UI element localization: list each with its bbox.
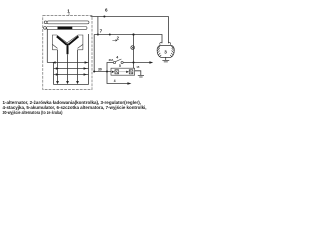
diode arrow down phase2 bbox=[66, 81, 69, 84]
wire 7 (indicator wire) bbox=[94, 35, 162, 44]
svg-text:5: 5 bbox=[119, 64, 121, 68]
label 4b on bottom branch bbox=[114, 79, 116, 83]
can body bbox=[157, 46, 174, 58]
svg-text:7: 7 bbox=[100, 29, 103, 34]
diode rail 2 bbox=[54, 68, 89, 70]
svg-text:1: 1 bbox=[67, 9, 70, 14]
diode rail 3 bbox=[54, 74, 89, 76]
winding bottom step right bbox=[78, 49, 83, 51]
phase bar left (thick) bbox=[57, 36, 67, 44]
diode rail 1 bbox=[47, 62, 88, 64]
stator winding envelope bbox=[52, 35, 83, 50]
phase bar right (thick) bbox=[69, 36, 79, 44]
label 4 bbox=[116, 56, 118, 60]
regulator ground bars bbox=[162, 60, 169, 62]
svg-text:4: 4 bbox=[116, 56, 118, 60]
regulator ground stub bbox=[165, 57, 167, 60]
svg-text:15: 15 bbox=[136, 65, 139, 69]
switch contact right bbox=[121, 61, 123, 63]
rail1 arrow left (pointing left) bbox=[52, 61, 55, 64]
regulator 3 (round can) bbox=[157, 42, 174, 57]
exciter wire to lower brush bbox=[46, 29, 47, 63]
label 30 bbox=[98, 68, 102, 72]
B+ vertical wire bbox=[93, 35, 95, 72]
tick dot 6 bbox=[103, 15, 105, 17]
label 6 bbox=[105, 8, 108, 13]
label 5 above box bbox=[119, 64, 121, 68]
tick dot 7 bbox=[109, 34, 111, 36]
slip ring bar lower bbox=[46, 27, 87, 30]
battery ground bars bbox=[138, 75, 144, 77]
svg-text:30: 30 bbox=[98, 68, 102, 72]
bottom branch wire bbox=[107, 72, 128, 84]
bottom rail bbox=[54, 84, 89, 86]
junction switch/lamp bbox=[132, 61, 134, 63]
wire6-wire7 link vertical bbox=[97, 17, 99, 35]
winding bottom step left bbox=[52, 49, 57, 51]
junction B+ / wire30 bbox=[93, 70, 95, 72]
label 7 bbox=[100, 29, 103, 34]
switch blade bbox=[116, 59, 122, 62]
svg-text:3: 3 bbox=[164, 50, 167, 55]
svg-text:6: 6 bbox=[105, 8, 108, 13]
diode arrow down phase1 bbox=[56, 81, 59, 84]
label 30A bbox=[109, 58, 114, 62]
leader arrow for 2 bbox=[112, 40, 117, 42]
rail2 arrow mid bbox=[56, 67, 59, 70]
junction switch elbow on wire30 bbox=[106, 70, 108, 72]
svg-text:2: 2 bbox=[117, 35, 120, 40]
terminal circle lower brush bbox=[44, 27, 47, 30]
bottom branch arrow end bbox=[127, 82, 131, 84]
alternator box 1 (dash-dot enclosure) bbox=[43, 16, 92, 90]
right bus bbox=[88, 34, 90, 85]
inter-cell wire bbox=[119, 71, 127, 73]
battery box 5 bbox=[111, 68, 135, 75]
rail3 arrow mid bbox=[56, 73, 59, 76]
rail2 arrow end bbox=[84, 67, 87, 70]
winding inner diagonal right bbox=[78, 44, 83, 48]
ignition switch 4 wire bbox=[107, 63, 150, 72]
svg-text:4: 4 bbox=[114, 79, 116, 83]
wire 6 (top run to regulator) bbox=[91, 17, 169, 44]
brush black segment bbox=[58, 27, 73, 30]
label 2 bbox=[117, 35, 120, 40]
phase bar middle (thick) bbox=[67, 44, 69, 55]
left jog bus bbox=[53, 63, 55, 85]
junction link/wire7 bbox=[97, 33, 99, 35]
phase wire 1 bbox=[57, 50, 59, 82]
cell arrow 2 bbox=[126, 71, 129, 73]
side hatch left bbox=[157, 46, 161, 57]
label 1 bbox=[67, 9, 70, 14]
lamp 2 symbol bbox=[131, 46, 135, 50]
lamp branch vertical bbox=[133, 35, 135, 69]
phase wire 2 bbox=[67, 54, 69, 81]
switch end arrow bbox=[149, 61, 153, 64]
leader tick for 1 bbox=[68, 13, 70, 16]
cell plate 2 (hatched) bbox=[129, 70, 133, 74]
label 15 bbox=[136, 65, 139, 69]
cell arrow 1 bbox=[112, 71, 115, 73]
wire 30 from alternator bbox=[94, 71, 111, 73]
diode arrow down phase3 bbox=[76, 81, 79, 84]
terminal eyelet right bbox=[168, 42, 170, 44]
rail1 arrow end bbox=[85, 61, 88, 64]
terminal circle upper brush bbox=[44, 21, 47, 24]
battery ground elbow bbox=[135, 71, 141, 75]
cell plate 1 (hatched) bbox=[115, 70, 119, 74]
label 3 inside can bbox=[164, 50, 167, 55]
phase wire 3 bbox=[77, 50, 79, 82]
rail3 arrow end bbox=[84, 73, 87, 76]
slip ring bar upper bbox=[47, 21, 89, 24]
winding inner diagonal left bbox=[52, 44, 57, 48]
terminal eyelet left bbox=[160, 42, 162, 44]
switch contact left bbox=[113, 61, 115, 63]
side hatch right bbox=[170, 46, 174, 57]
junction wire7/lamp bbox=[132, 33, 134, 35]
svg-text:30-wyjście alternatora (to ze: 30-wyjście alternatora (to ze śruba) bbox=[3, 110, 63, 115]
svg-text:30A: 30A bbox=[109, 58, 114, 62]
